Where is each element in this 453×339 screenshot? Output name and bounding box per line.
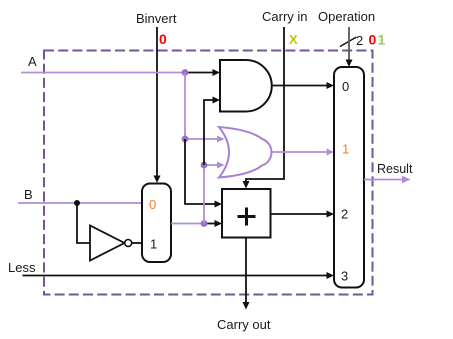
junction dot OR input 2	[201, 162, 208, 169]
wire Less to result-mux input 3	[23, 275, 329, 277]
wire A vertical branch (purple)	[184, 73, 186, 140]
svg-text:X: X	[289, 32, 298, 47]
plus symbol	[238, 215, 256, 218]
svg-text:0: 0	[149, 197, 156, 212]
svg-text:0: 0	[159, 31, 167, 47]
wire Carry in (down, left, into adder top)	[246, 27, 284, 182]
svg-text:Carry in: Carry in	[262, 9, 308, 24]
svg-text:1: 1	[150, 237, 157, 252]
svg-text:1: 1	[342, 142, 349, 157]
adder (+ box)	[222, 189, 271, 238]
junction dot B-mux output	[201, 220, 208, 227]
svg-text:1: 1	[378, 32, 386, 48]
wire OR output to result-mux input 1 (purple)	[272, 151, 328, 153]
wire adder output to result-mux input 2	[271, 213, 329, 215]
junction dot A	[182, 69, 189, 76]
wire A (purple horizontal)	[21, 72, 185, 74]
wire B-mux output to adder input 2 (black)	[204, 223, 216, 225]
svg-text:Result: Result	[377, 162, 413, 176]
svg-text:Binvert: Binvert	[136, 11, 177, 26]
wire A down to adder (black)	[185, 139, 216, 204]
wire B-mux output (purple)	[171, 223, 204, 225]
wire to OR input 2 (purple)	[204, 164, 218, 166]
not-gate bubble	[125, 240, 132, 247]
wire Binvert (vertical into B-mux select)	[156, 27, 158, 177]
mux result (4-to-1)	[334, 67, 364, 288]
wire A to OR input 1 (purple)	[185, 138, 218, 140]
wire B to inverter input	[77, 203, 90, 243]
svg-text:Less: Less	[8, 260, 36, 275]
svg-text:3: 3	[341, 269, 348, 284]
not-gate (inverter)	[90, 226, 125, 261]
svg-text:B: B	[24, 187, 33, 202]
wire A to AND input 1 (black)	[185, 72, 214, 74]
wire Carry out (down from adder)	[245, 238, 247, 304]
wire B-mux output up (purple)	[203, 165, 205, 224]
wire AND output to result-mux input 0	[272, 85, 328, 87]
wire Result (purple out of mux)	[364, 179, 404, 181]
wire up to AND input 2 (black)	[204, 100, 214, 165]
svg-text:0: 0	[369, 32, 377, 48]
bus slash on Operation wire	[340, 37, 357, 47]
svg-text:Carry out: Carry out	[217, 317, 271, 332]
wire inverter to B-mux input 1	[132, 242, 142, 244]
wire Operation (vertical into result mux select)	[348, 27, 350, 61]
svg-text:0: 0	[342, 79, 349, 94]
and-gate	[220, 60, 272, 112]
svg-text:Operation: Operation	[318, 9, 375, 24]
ALU boundary (dashed box)	[44, 51, 373, 295]
svg-text:2: 2	[356, 33, 363, 48]
wire B (purple horizontal into B-mux input 0)	[18, 202, 142, 204]
junction dot B (black)	[74, 200, 80, 206]
or-gate	[219, 127, 271, 178]
mux B (2-to-1)	[142, 184, 171, 263]
junction dot A-OR	[182, 136, 189, 143]
svg-text:A: A	[28, 54, 37, 69]
svg-text:2: 2	[341, 207, 348, 222]
